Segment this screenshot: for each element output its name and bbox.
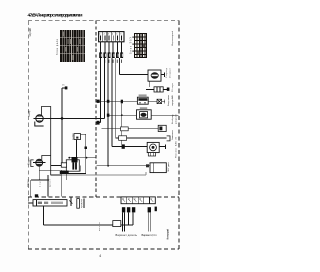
wire 1 bbox=[100, 58, 102, 123]
svg-text:Блок реле: Блок реле bbox=[56, 38, 59, 55]
tiny wire code labels under pins bbox=[100, 60, 122, 63]
svg-text:предохр: предохр bbox=[81, 198, 83, 208]
connector X1 top (6-cell box) bbox=[99, 32, 124, 42]
svg-text:Жгут моторный: Жгут моторный bbox=[171, 30, 174, 46]
ignition switch cluster bbox=[39, 158, 96, 174]
regulator box U2 bbox=[137, 110, 152, 119]
svg-text:Генер.: Генер. bbox=[29, 110, 31, 117]
small connector under relay K5 bbox=[148, 153, 155, 156]
left drop wires to lower border bbox=[31, 166, 61, 197]
ignition switch black contacts bbox=[72, 157, 78, 162]
connector C300 small box bbox=[74, 134, 86, 174]
bottom-center ignition connector bbox=[121, 197, 155, 204]
thin aux wire bbox=[51, 174, 146, 176]
cluster wires bbox=[51, 165, 62, 167]
node pin on wire C bbox=[122, 144, 125, 148]
wire-end lug at lower border bbox=[35, 194, 38, 197]
svg-text:Реле обог.: Реле обог. bbox=[175, 148, 177, 158]
svg-text:ротора ген: ротора ген bbox=[175, 113, 177, 124]
svg-text:Блок ЭБУ: Блок ЭБУ bbox=[130, 37, 133, 54]
tall narrow fuse symbol bbox=[77, 199, 80, 209]
small side box bbox=[61, 163, 66, 167]
wire C (y=146.6) to relay K5 bbox=[112, 146, 147, 148]
connector block at end of wire A bbox=[158, 125, 166, 131]
generator G1 bbox=[33, 107, 50, 176]
connector X1 terminal marks bbox=[101, 36, 122, 41]
left section: terminal 15 stub bbox=[62, 88, 65, 163]
svg-text:Масса: Масса bbox=[28, 179, 30, 187]
wire1 left border pin (y=122.6) bbox=[96, 122, 100, 124]
wire harness frame dashed left border bbox=[27, 21, 29, 249]
svg-text:4: 4 bbox=[99, 254, 101, 258]
pin row (black connector pins) bbox=[99, 52, 123, 58]
svg-text:красн: красн bbox=[49, 178, 51, 187]
node pin on wire y=101.3 bbox=[121, 100, 123, 104]
junction dot wire3 bbox=[107, 100, 110, 103]
cluster top wire bbox=[69, 157, 96, 159]
riser from bus box bbox=[44, 206, 134, 225]
lamp symbol (box with X) bbox=[148, 99, 165, 103]
relay K1 box bbox=[137, 97, 148, 104]
relay K5 box with round core bbox=[147, 142, 165, 152]
starter motor M1 bbox=[31, 156, 51, 167]
svg-text:C300: C300 bbox=[72, 133, 74, 140]
ECU connector box bbox=[150, 163, 166, 173]
relay K4 box with motor symbol bbox=[148, 70, 165, 81]
svg-text:Жгут передний: Жгут передний bbox=[167, 228, 170, 240]
terminal ticks in connector cells bbox=[123, 199, 154, 202]
node terminal right of S2 bbox=[167, 88, 170, 91]
wire A (y=128.8) with inline fuse bbox=[102, 127, 159, 131]
svg-text:заряда АКБ: заряда АКБ bbox=[171, 94, 174, 106]
inline box on bottom wire bbox=[113, 221, 121, 227]
bottom-left fuse bus box bbox=[28, 200, 67, 206]
svg-text:Вариант дизель: Вариант дизель bbox=[116, 233, 138, 237]
wire stubs X1 to pin row bbox=[101, 42, 122, 53]
relay block grid right (lattice block) bbox=[132, 33, 147, 58]
svg-text:ЭБУ двиг.: ЭБУ двиг. bbox=[168, 162, 170, 172]
link wire node to node bbox=[121, 103, 123, 144]
svg-text:Зажигание: Зажигание bbox=[172, 129, 174, 140]
wire harness frame dashed top border bbox=[28, 20, 179, 22]
wire generator to bundle (y=118.4) bbox=[43, 117, 104, 119]
wire harness frame dashed bottom border bbox=[28, 248, 179, 250]
wire 2 bbox=[103, 58, 105, 118]
long bottom wire bbox=[44, 224, 134, 226]
black junction lug bbox=[60, 171, 69, 174]
wire 3 bbox=[107, 58, 109, 166]
small 3-cell connector S2 bbox=[146, 87, 167, 92]
wire B (y=138) with inline fuse bbox=[116, 136, 170, 141]
wire 5 bbox=[115, 58, 117, 138]
internal dashed divider horizontal y=197 bbox=[28, 196, 179, 198]
fuse/relay block grid left (dense hatched block) bbox=[60, 30, 85, 62]
cluster outline box bbox=[66, 160, 79, 171]
wire 6 bbox=[119, 58, 121, 75]
svg-text:30 черн: 30 черн bbox=[172, 82, 174, 92]
wire to starter relay (y=74.5) bbox=[120, 74, 149, 76]
wire to relay K1 (y=101.3) bbox=[96, 100, 137, 102]
label above relay K1 bbox=[139, 94, 147, 96]
internal dashed divider vertical x=96 bbox=[95, 21, 97, 197]
switch hook symbol bbox=[69, 198, 72, 206]
main vertical wire bundle bbox=[101, 58, 120, 166]
svg-text:Возбужд.: Возбужд. bbox=[172, 114, 174, 124]
svg-text:Вариант 2,4 л: Вариант 2,4 л bbox=[142, 233, 157, 237]
svg-text:4-7зВА. Генератор с электродви: 4-7зВА. Генератор с электродвигателем bbox=[28, 12, 84, 17]
vertical stub relay to connector S2 bbox=[149, 81, 151, 87]
svg-text:черн: черн bbox=[40, 178, 42, 187]
svg-text:АКБ 30: АКБ 30 bbox=[174, 136, 177, 146]
svg-text:15 красн: 15 красн bbox=[170, 67, 172, 78]
wire 4 bbox=[111, 58, 113, 147]
junction pin on vertical wire bbox=[85, 147, 88, 150]
svg-text:массы: массы bbox=[99, 222, 101, 231]
double drop wires bbox=[123, 212, 151, 231]
junction terminal dot bbox=[65, 86, 68, 89]
generator lower bracket bbox=[35, 122, 44, 127]
svg-text:50: 50 bbox=[133, 198, 135, 200]
pin ticks before ECU box bbox=[146, 164, 149, 167]
generator hook wire up and right bbox=[42, 107, 51, 176]
wire harness frame dashed right border bbox=[178, 21, 180, 249]
svg-text:Контр. лампа: Контр. лампа bbox=[168, 94, 170, 106]
svg-text:30: 30 bbox=[122, 198, 124, 200]
svg-text:19: 19 bbox=[139, 198, 141, 200]
connector pins black bbox=[122, 207, 157, 213]
svg-text:87: 87 bbox=[150, 198, 152, 200]
wire to ECU connector (y=165.8) bbox=[96, 165, 150, 167]
svg-text:Стартер: Стартер bbox=[166, 67, 168, 78]
svg-text:Старт.: Старт. bbox=[28, 158, 30, 165]
stub wire x=66.7 bbox=[66, 174, 68, 180]
wire to regulator box (y=115.2) bbox=[108, 114, 136, 116]
svg-text:Жгут АКБ: Жгут АКБ bbox=[29, 28, 32, 37]
svg-text:15: 15 bbox=[128, 198, 130, 200]
